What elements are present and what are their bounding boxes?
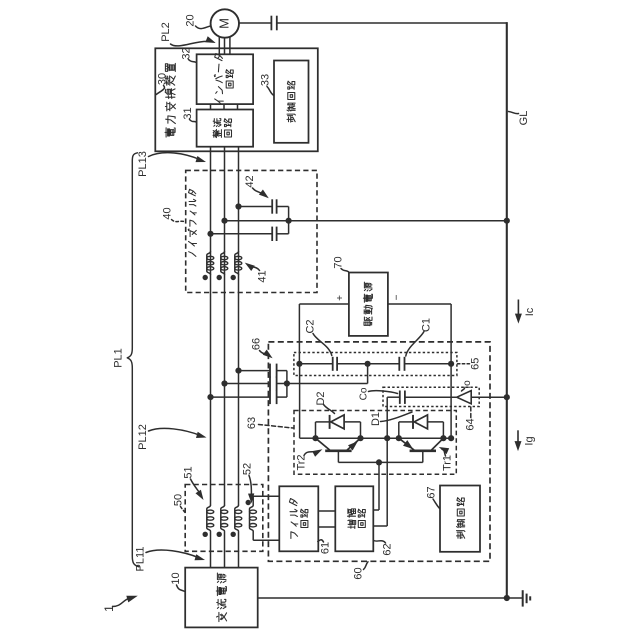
svg-text:Co: Co (359, 387, 370, 400)
wire: motor output top line to GL (239, 22, 272, 24)
box 60 active filter dashed (268, 342, 490, 561)
svg-text:66: 66 (250, 338, 262, 350)
capacitor Co (399, 391, 401, 404)
box 64 dotted output block (383, 387, 479, 406)
svg-text:D1: D1 (370, 412, 382, 426)
svg-text:65: 65 (469, 358, 481, 370)
svg-text:60: 60 (352, 567, 364, 579)
svg-text:Ig: Ig (523, 436, 535, 445)
svg-text:Io: Io (462, 380, 473, 389)
svg-text:C2: C2 (304, 319, 316, 333)
svg-text:D2: D2 (315, 391, 327, 405)
wire middle phase to GL ground line (225, 220, 507, 222)
svg-text:−: − (392, 294, 403, 300)
arrow Io hollow (457, 391, 471, 404)
svg-text:32: 32 (181, 47, 193, 59)
node plus rail (296, 361, 302, 367)
wire cap66 common connector (286, 371, 288, 398)
svg-text:33: 33 (259, 74, 271, 86)
box 70 drive power supply (349, 273, 388, 336)
wire drive supply plus lead (299, 303, 349, 305)
node Co line at GL (504, 394, 510, 400)
svg-text:42: 42 (244, 175, 256, 187)
svg-text:70: 70 (332, 256, 344, 268)
wire emitter-collector line Tr2-Tr1 (316, 437, 452, 439)
label AC power source text (217, 612, 227, 621)
capacitor 42 bottom (271, 227, 273, 241)
svg-text:Tr1: Tr1 (441, 455, 453, 471)
motor M (211, 9, 239, 37)
svg-text:61: 61 (319, 542, 331, 554)
node junctions for capacitors 42 (235, 203, 241, 209)
svg-text:20: 20 (184, 14, 196, 26)
node cap66 common at middle line (284, 380, 290, 386)
svg-text:C1: C1 (420, 318, 432, 332)
capacitor 42 top (271, 199, 273, 213)
inductor 52 sense coil (253, 495, 279, 497)
wire cap42 common connector (288, 207, 290, 234)
node bottom line at GL (504, 595, 510, 601)
svg-text:+: + (335, 295, 346, 301)
capacitor C2 (332, 357, 334, 371)
diode D2 loop (315, 422, 317, 438)
diode D1 loop (398, 422, 400, 438)
svg-text:GL: GL (518, 111, 530, 126)
capacitor 66 bottom (269, 390, 271, 404)
diode D2 (329, 415, 331, 429)
svg-text:PL2: PL2 (160, 22, 172, 42)
diode D1 (412, 415, 414, 429)
svg-text:PL1: PL1 (112, 348, 124, 368)
wire minus rail down to Tr1 collector (450, 364, 452, 438)
junction nodes for coupling capacitors 66 (235, 368, 241, 374)
svg-text:Tr2: Tr2 (295, 454, 307, 470)
svg-text:40: 40 (161, 207, 173, 219)
box 30 power converter (155, 48, 317, 151)
wire Co output line (387, 396, 400, 398)
wire box10 to bottom ground line (258, 597, 523, 599)
label drive power text (364, 317, 372, 326)
svg-text:PL13: PL13 (137, 151, 149, 177)
wire centre node to Co line (386, 397, 388, 438)
label amplifier circuit text (348, 520, 356, 528)
wires between 31 and 32 (210, 104, 212, 109)
svg-text:41: 41 (256, 270, 268, 282)
phase wires below coils into box10 (210, 532, 212, 568)
svg-text:52: 52 (241, 463, 253, 475)
node middle line at GL (504, 218, 510, 224)
wire plus rail down to Tr2 collector (299, 364, 301, 438)
node minus rail (448, 361, 454, 367)
label rectifier circuit text (213, 129, 221, 137)
box 10 AC power source (185, 568, 258, 628)
inductors 41 noise filter coils (207, 252, 211, 275)
label filter circuit 61 text (291, 532, 298, 539)
svg-text:51: 51 (182, 466, 194, 478)
svg-text:Ic: Ic (524, 307, 536, 316)
capacitor 66 middle (269, 377, 271, 391)
label power conversion device text (165, 128, 175, 137)
wire cap66 middle line (225, 383, 270, 385)
svg-text:64: 64 (465, 418, 477, 430)
label control circuit 67 text (457, 531, 465, 539)
transistor Tr2 npn (325, 449, 351, 452)
label control circuit 33 text (287, 114, 295, 122)
box 50 dashed (185, 485, 263, 552)
wire GL vertical ground line (506, 22, 508, 598)
box 40 noise filter dashed (186, 170, 317, 292)
wire drive supply minus lead (388, 303, 451, 305)
capacitor 66 top (269, 364, 271, 378)
wire cap42 top line (239, 206, 272, 208)
inductors 51 (207, 505, 211, 531)
svg-text:50: 50 (172, 494, 184, 506)
box 33 control circuit (274, 61, 309, 143)
ground symbol (522, 590, 524, 606)
capacitor on motor-ground line (270, 16, 272, 31)
svg-text:31: 31 (182, 107, 194, 119)
node base link centre (376, 459, 382, 465)
wire cap66 top line (239, 370, 270, 372)
wires motor to inverter (218, 37, 220, 54)
svg-text:62: 62 (381, 543, 393, 555)
wire cap42 bottom line (211, 233, 272, 235)
wire centre node down to amplifier (386, 438, 388, 526)
wires 61 to 62 (318, 510, 335, 512)
node cap42 common to middle line (286, 218, 292, 224)
box 62 amplifier circuit (335, 486, 373, 551)
svg-text:10: 10 (170, 572, 182, 584)
box 65 dotted capacitor block (294, 353, 457, 376)
wire mid node riser to C1C2 midpoint (367, 364, 369, 384)
svg-text:67: 67 (425, 486, 437, 498)
box 63 transistor block dashed (294, 411, 456, 475)
box 31 rectifier circuit (197, 110, 254, 147)
svg-text:63: 63 (246, 417, 258, 429)
svg-text:PL12: PL12 (137, 424, 149, 450)
wire base link line (337, 451, 339, 463)
svg-text:PL11: PL11 (134, 547, 146, 572)
box 61 filter circuit (279, 486, 318, 551)
wire C2 C1 rail (299, 363, 332, 365)
node C1C2 midpoint (365, 361, 371, 367)
box 67 control circuit (440, 486, 480, 552)
wire cap66 bottom line (211, 396, 270, 398)
label noise filter text (189, 252, 196, 257)
label inverter circuit text (215, 99, 224, 104)
capacitor C1 (398, 357, 400, 371)
svg-text:M: M (217, 18, 232, 29)
box 32 inverter circuit (197, 54, 254, 104)
transistor Tr1 pnp (410, 449, 436, 452)
phase wires below box30 to AC source (210, 147, 212, 506)
wire base link to amplifier (378, 462, 380, 510)
